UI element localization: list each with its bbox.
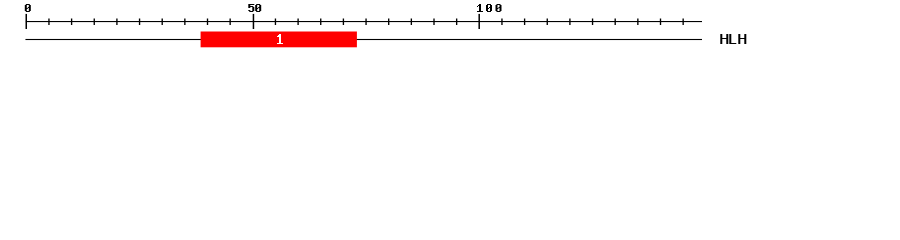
protein backbone line [25, 39, 702, 40]
minor ticks every 5 residues [48, 19, 684, 26]
ruler label 50 [248, 4, 261, 12]
domain box (red match region) [201, 32, 357, 48]
ruler label 0 [25, 4, 31, 12]
major tick 0 [26, 14, 28, 29]
domain name label HLH [720, 34, 746, 44]
major tick 50 [253, 14, 255, 29]
domain box label 1 [277, 34, 283, 44]
ruler axis line [25, 21, 702, 22]
major tick 100 [478, 14, 480, 29]
ruler label 100 [477, 4, 502, 12]
